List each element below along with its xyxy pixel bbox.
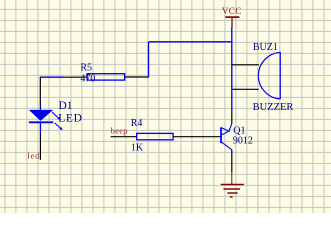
svg-text:beep: beep: [111, 126, 128, 135]
svg-text:LED: LED: [58, 113, 82, 125]
svg-text:1K: 1K: [131, 142, 144, 153]
svg-text:VCC: VCC: [222, 6, 242, 16]
svg-text:BUZZER: BUZZER: [253, 102, 294, 113]
svg-text:9012: 9012: [233, 136, 253, 147]
svg-text:led: led: [27, 151, 40, 160]
svg-text:D1: D1: [59, 100, 73, 112]
svg-text:R4: R4: [131, 118, 143, 129]
svg-text:BUZ1: BUZ1: [253, 42, 278, 53]
svg-text:470: 470: [80, 74, 95, 85]
svg-text:R5: R5: [80, 63, 92, 74]
